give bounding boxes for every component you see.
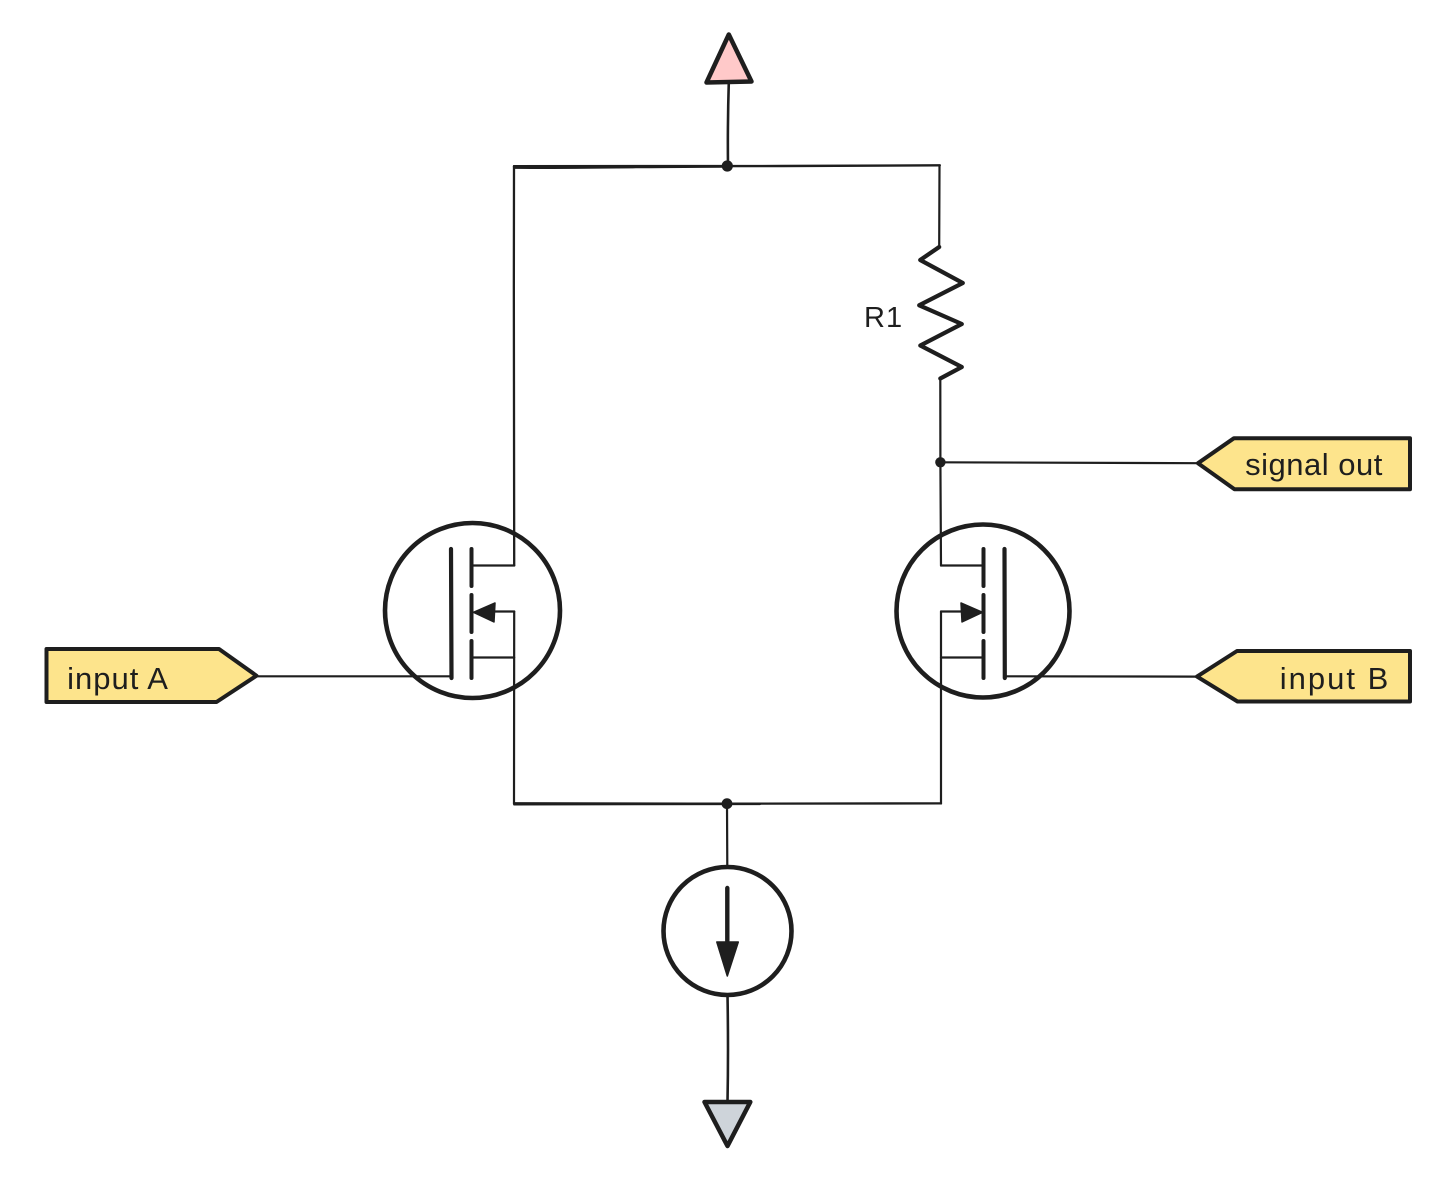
wire signal out [940, 461, 1198, 464]
flag input A [47, 649, 257, 702]
transistor Q2 [897, 525, 1070, 804]
wire gate Q1 (input A) [257, 675, 452, 677]
node junction bottom [722, 798, 733, 809]
wire below R1 [939, 379, 941, 463]
wire right vertical above R1 [938, 166, 940, 248]
node junction signal out [935, 457, 945, 467]
wire VDD stem [727, 82, 731, 166]
flag input B [1197, 651, 1410, 702]
transistor Q1 [385, 523, 560, 804]
svg-text:input A: input A [67, 661, 169, 696]
wire to ground [726, 995, 729, 1102]
wire top rail [514, 165, 940, 166]
wire gate Q2 (input B) [1005, 675, 1197, 677]
ground symbol [705, 1102, 751, 1146]
current source I1 [664, 867, 792, 995]
resistor R1 [919, 247, 963, 379]
wire left vertical (Q1 drain to rail) [513, 166, 516, 565]
wire to current source [726, 804, 728, 868]
power VDD symbol [707, 35, 752, 83]
svg-text:R1: R1 [864, 302, 903, 334]
svg-text:input B: input B [1280, 661, 1391, 696]
wire bottom rail [514, 802, 941, 805]
flag signal out [1198, 438, 1410, 489]
svg-text:signal out: signal out [1245, 447, 1383, 482]
wire Q2 drain vertical [939, 462, 942, 565]
node junction top [722, 160, 733, 171]
